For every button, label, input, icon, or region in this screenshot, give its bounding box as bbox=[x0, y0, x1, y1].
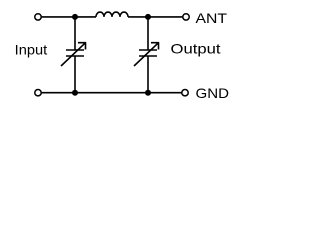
junction top-left bbox=[72, 14, 78, 20]
svg-text:Input: Input bbox=[15, 41, 48, 57]
capacitor C2 plates bbox=[139, 50, 157, 56]
capacitor C1 lead bottom bbox=[74, 56, 76, 93]
capacitor C1 arrow bbox=[61, 43, 86, 66]
inductor L1 bbox=[96, 12, 128, 17]
terminal J2 input bottom bbox=[35, 90, 41, 96]
terminal ANT bbox=[183, 14, 189, 20]
capacitor C2 arrow bbox=[134, 43, 159, 66]
svg-text:GND: GND bbox=[196, 85, 230, 101]
wire top-right bbox=[128, 16, 183, 18]
capacitor C1 plates bbox=[66, 50, 84, 56]
capacitor C2 lead top bbox=[147, 17, 149, 50]
capacitor C2 lead bottom bbox=[147, 56, 149, 93]
junction bottom-left bbox=[72, 90, 78, 96]
junction top-right bbox=[145, 14, 151, 20]
wire bottom bbox=[42, 92, 182, 94]
svg-text:ANT: ANT bbox=[196, 10, 228, 26]
svg-text:Output: Output bbox=[171, 41, 221, 57]
wire top-left bbox=[42, 16, 97, 18]
terminal GND bbox=[182, 90, 188, 96]
terminal J1 input top bbox=[35, 14, 41, 20]
capacitor C1 lead top bbox=[74, 17, 76, 50]
junction bottom-right bbox=[145, 90, 151, 96]
